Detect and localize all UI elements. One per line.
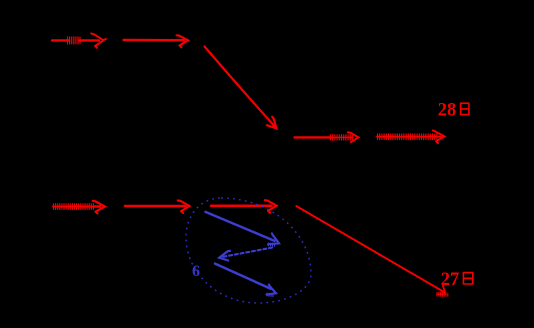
svg-text:28: 28	[438, 100, 457, 120]
label 28日 (red date label, middle right)	[438, 100, 469, 120]
arrow A3 (middle row, first red arrow, half hatched)	[295, 132, 359, 142]
arrow A4 (middle row, second red arrow, fully hatched)	[377, 130, 445, 143]
arrow A1 (top row, first red arrow with hatch ticks)	[52, 33, 106, 47]
arrow A6 (bottom row, second red arrow)	[125, 201, 190, 214]
dashed blue ellipse (annotation loop, hand-drawn)	[186, 198, 311, 303]
diagonal red arrow D1 (from row 1 down to row 2)	[205, 47, 277, 129]
arrow A7 (bottom row, third red arrow, across ellipse)	[211, 200, 277, 213]
label 27日 (red date label, bottom right)	[441, 270, 473, 290]
diagonal red arrow D2 (down to 27日)	[296, 206, 447, 296]
blue arrow B2 (zigzag, dashed, back to left)	[219, 248, 272, 261]
arrow A5 (bottom row, first red arrow, fully hatched)	[53, 201, 105, 214]
svg-text:6: 6	[192, 263, 200, 280]
arrow A2 (top row, second red arrow)	[124, 35, 189, 47]
blue arrow B3 (zigzag, down-right)	[215, 264, 276, 297]
blue arrow B1 (zigzag, down-right)	[206, 212, 280, 246]
svg-text:27: 27	[441, 270, 460, 290]
